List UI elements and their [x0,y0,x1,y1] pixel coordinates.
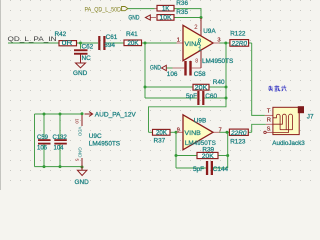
svg-text:R41: R41 [126,31,138,38]
svg-text:C60: C60 [205,93,217,100]
svg-text:AudioJack3: AudioJack3 [272,140,305,147]
svg-text:GND: GND [75,179,90,186]
svg-text:20K: 20K [195,86,208,92]
svg-text:LM4950TS: LM4950TS [185,140,216,147]
svg-text:T: T [267,109,271,115]
svg-text:R123: R123 [230,138,246,145]
svg-text:R40: R40 [213,79,225,86]
svg-text:22R0: 22R0 [230,41,247,47]
svg-text:22R0: 22R0 [230,131,247,137]
svg-text:1K: 1K [162,6,169,12]
svg-text:VINB: VINB [184,130,201,137]
svg-text:106: 106 [167,71,178,78]
svg-text:U9A: U9A [203,28,216,35]
svg-text:LM4950TS: LM4950TS [89,140,120,147]
svg-text:PA_QD_L_50D: PA_QD_L_50D [85,6,122,13]
svg-text:GND: GND [150,65,161,72]
svg-text:20K: 20K [128,41,139,47]
svg-text:S: S [267,126,271,132]
svg-text:10: 10 [75,119,80,125]
svg-text:3: 3 [217,37,220,43]
svg-text:104: 104 [54,146,65,152]
svg-text:R37: R37 [154,138,166,145]
svg-text:J7: J7 [307,114,314,121]
svg-text:R122: R122 [230,31,246,38]
svg-text:R35: R35 [176,9,188,16]
svg-text:106: 106 [37,146,48,152]
svg-text:1: 1 [198,47,201,53]
svg-text:QD_L_PA_IN: QD_L_PA_IN [8,36,57,43]
svg-text:1: 1 [177,38,180,44]
svg-text:10K: 10K [160,15,172,21]
svg-text:AUD_PA_12V: AUD_PA_12V [95,112,137,119]
svg-text:R39: R39 [202,146,214,153]
svg-text:394: 394 [104,42,115,49]
svg-text:C61: C61 [106,34,118,41]
svg-text:R36: R36 [176,0,188,7]
svg-text:U9B: U9B [194,118,206,125]
svg-text:C62: C62 [82,44,94,51]
svg-text:7: 7 [219,127,222,133]
svg-text:LM4950TS: LM4950TS [202,58,233,65]
svg-text:5pF: 5pF [193,166,204,173]
svg-text:VDD: VDD [77,127,82,137]
svg-text:C132: C132 [53,135,68,141]
svg-text:20K: 20K [202,154,214,160]
svg-text:C144: C144 [213,166,229,173]
svg-text:5: 5 [75,159,80,162]
svg-text:8: 8 [195,59,198,65]
svg-text:GND: GND [128,15,139,22]
svg-text:20K: 20K [156,130,167,136]
svg-text:GND: GND [73,70,88,77]
svg-text:C59: C59 [37,135,49,141]
svg-text:5pF: 5pF [186,93,197,100]
svg-text:NC: NC [82,55,92,62]
svg-text:8: 8 [198,38,201,44]
svg-text:C58: C58 [194,71,206,78]
svg-text:0R: 0R [62,41,73,47]
svg-text:GND: GND [77,147,82,158]
svg-text:9: 9 [177,127,180,133]
svg-text:R: R [267,117,271,123]
svg-text:U9C: U9C [89,133,102,140]
